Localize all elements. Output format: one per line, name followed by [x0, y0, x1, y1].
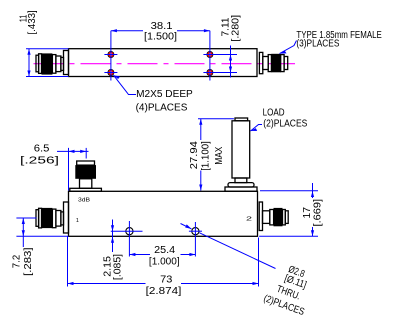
svg-text:[.256]: [.256] — [20, 155, 59, 166]
svg-text:38.1: 38.1 — [151, 21, 173, 32]
svg-text:27.94: 27.94 — [189, 141, 200, 169]
svg-text:[2.874]: [2.874] — [146, 286, 182, 297]
svg-text:[1.000]: [1.000] — [149, 256, 180, 267]
svg-text:M2X5 DEEP: M2X5 DEEP — [136, 89, 193, 100]
svg-text:6.5: 6.5 — [34, 143, 50, 154]
svg-text:25.4: 25.4 — [154, 245, 175, 256]
svg-text:[.283]: [.283] — [23, 247, 34, 276]
svg-text:[1.100]: [1.100] — [201, 141, 212, 171]
svg-text:2: 2 — [246, 217, 252, 223]
svg-text:(2)PLACES: (2)PLACES — [263, 118, 307, 129]
svg-text:17: 17 — [302, 206, 313, 218]
svg-text:(4)PLACES: (4)PLACES — [136, 103, 188, 114]
svg-text:73: 73 — [160, 275, 173, 286]
svg-text:LOAD: LOAD — [263, 107, 285, 118]
svg-text:7.2: 7.2 — [12, 254, 23, 268]
svg-text:(3)PLACES: (3)PLACES — [296, 38, 339, 49]
svg-text:[.280]: [.280] — [231, 15, 242, 42]
svg-text:3dB: 3dB — [78, 198, 90, 204]
svg-text:[.085]: [.085] — [112, 254, 123, 280]
svg-text:[.669]: [.669] — [313, 199, 324, 227]
svg-text:[1.500]: [1.500] — [144, 31, 177, 42]
svg-text:MAX: MAX — [214, 146, 225, 164]
svg-text:1: 1 — [76, 218, 79, 224]
svg-text:[.433]: [.433] — [27, 10, 38, 35]
